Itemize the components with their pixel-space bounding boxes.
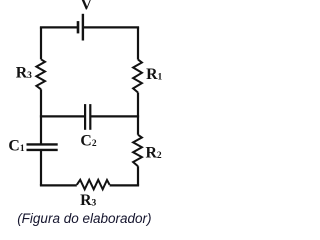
svg-text:C2: C2 (80, 132, 96, 149)
svg-text:R1: R1 (146, 66, 162, 83)
wire right upper (top corner to R1) (137, 27, 139, 59)
capacitor C2 left plate (84, 104, 86, 130)
capacitor C2 right plate (89, 104, 91, 130)
wire bottom right (R3 bottom to corner) (110, 184, 140, 186)
svg-text:R2: R2 (146, 144, 162, 161)
capacitor C1 top plate (27, 143, 58, 145)
resistor R2 (133, 135, 142, 166)
resistor R3 (left branch) (36, 59, 45, 89)
wire top left segment (41, 27, 78, 28)
resistor R3 (bottom branch) (77, 180, 110, 190)
wire top right segment (83, 26, 139, 28)
svg-text:(Figura do elaborador): (Figura do elaborador) (17, 211, 151, 226)
svg-text:R3: R3 (16, 65, 32, 82)
capacitor C1 bottom plate (27, 149, 58, 151)
battery V short plate (77, 21, 80, 33)
svg-text:C1: C1 (8, 138, 24, 155)
wire left lower (C1 to bottom corner) (40, 150, 42, 185)
wire middle right (C2 to right junction) (90, 115, 139, 117)
battery V tall plate (82, 14, 84, 41)
wire right lower (R2 to bottom corner) (137, 166, 139, 185)
wire bottom left (corner to R3 bottom) (40, 184, 77, 186)
svg-text:R3: R3 (80, 192, 96, 209)
resistor R1 (133, 60, 142, 93)
wire middle left (left junction to C2) (40, 115, 85, 117)
wire right middle (R1 to R2, through middle-wire junction) (137, 93, 139, 135)
wire left upper (top corner to R3) (40, 27, 42, 59)
wire left middle (R3 to C1, through middle-wire junction) (40, 89, 42, 144)
svg-text:V: V (81, 0, 93, 14)
